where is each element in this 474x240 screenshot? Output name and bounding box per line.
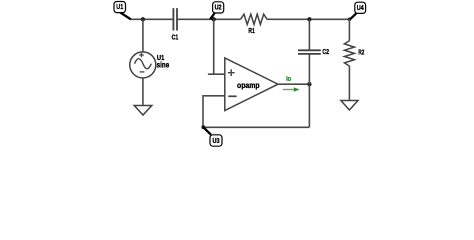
node label U2 [210, 2, 224, 19]
svg-text:sine: sine [157, 61, 170, 70]
wire source bottom lead [142, 78, 144, 106]
ground (source) [134, 106, 152, 116]
junction dot U4 corner [348, 18, 352, 22]
svg-text:R2: R2 [358, 47, 364, 56]
svg-text:U3: U3 [213, 136, 220, 145]
svg-text:opamp: opamp [237, 80, 260, 90]
junction dot node U2 [212, 17, 216, 21]
wire opamp + input stub [208, 73, 225, 75]
wire output node down [308, 84, 310, 127]
current arrow (green) [283, 87, 300, 91]
ground (R2) [341, 101, 358, 111]
svg-text:Io: Io [286, 74, 291, 83]
svg-text:C1: C1 [172, 32, 179, 41]
junction dot C2 tap [307, 17, 311, 21]
svg-text:R1: R1 [248, 26, 254, 35]
svg-text:U4: U4 [357, 3, 365, 12]
junction dot feedback corner [201, 125, 205, 129]
capacitor C1 [173, 8, 177, 30]
wire R2 top lead [348, 19, 350, 41]
wire C2 top lead [308, 19, 310, 50]
voltage source U1 sine [130, 52, 156, 78]
node label U4 [350, 2, 366, 19]
wire C2 bottom lead to output node [308, 54, 310, 84]
wire R2 bottom lead [348, 66, 350, 101]
wire R1 to R2 corner [267, 18, 349, 20]
wire opamp output [278, 83, 309, 85]
wire source top lead [142, 19, 144, 52]
op-amp U3 (opamp) [225, 58, 278, 111]
wire U2 node to opamp + input [213, 19, 215, 74]
node label U1 [114, 2, 131, 20]
junction dot at source tap [141, 17, 145, 21]
wire top segment (node U1 to C1 left plate) [131, 18, 174, 20]
junction dot output node [307, 82, 311, 86]
node label U3 [204, 127, 222, 146]
capacitor C2 [298, 50, 321, 54]
svg-text:U2: U2 [215, 2, 222, 11]
svg-text:C2: C2 [322, 47, 329, 56]
wire C1 to R1 [177, 18, 241, 20]
resistor R1 [241, 14, 268, 24]
wire opamp - input to feedback corner [203, 96, 225, 128]
resistor R2 [344, 41, 354, 66]
wire feedback bottom [203, 126, 309, 128]
svg-text:U1: U1 [116, 2, 123, 11]
